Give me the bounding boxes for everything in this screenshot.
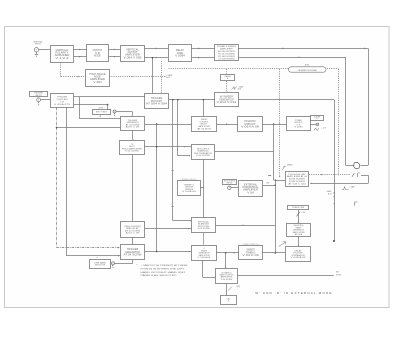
svg-text:AT 04 SCRW: AT 04 SCRW [124, 254, 143, 257]
svg-text:(GATE): (GATE) [287, 164, 293, 167]
svg-text:V 45 A 475: V 45 A 475 [54, 103, 71, 106]
svg-text:V 094 V 095: V 094 V 095 [124, 56, 143, 59]
svg-text:CALIBRATION SIGNAL: CALIBRATION SIGNAL [297, 69, 316, 72]
svg-text:CT 048 SCREW: CT 048 SCREW [218, 58, 235, 60]
svg-text:EXT TRIG: EXT TRIG [96, 112, 108, 114]
svg-text:AT 04 A 09: AT 04 A 09 [197, 127, 210, 130]
svg-text:V 04 C 09: V 04 C 09 [242, 254, 259, 257]
svg-text:V 1 V 2: V 1 V 2 [55, 57, 69, 60]
svg-text:A 04: A 04 [328, 192, 331, 195]
svg-text:TRACE SW: TRACE SW [292, 206, 304, 209]
svg-text:PANELS AS SELECTED: PANELS AS SELECTED [141, 274, 178, 277]
svg-text:A 04 C 09: A 04 C 09 [126, 232, 141, 235]
svg-text:(X10): (X10) [236, 286, 240, 288]
svg-text:V 014 A 04: V 014 A 04 [198, 256, 211, 259]
svg-text:V 04 SCRW: V 04 SCRW [125, 151, 139, 153]
svg-text:A 09 C 09: A 09 C 09 [126, 126, 141, 129]
svg-text:INPUT: INPUT [35, 95, 42, 97]
svg-text:V 014 A 09: V 014 A 09 [241, 126, 260, 129]
svg-text:AT 044 C 044: AT 044 C 044 [288, 183, 307, 186]
svg-text:*: * [137, 264, 138, 267]
svg-text:MODE: MODE [94, 55, 101, 58]
svg-text:EXT: EXT [336, 272, 339, 274]
svg-text:V 04 A 09: V 04 A 09 [182, 190, 197, 193]
svg-text:V 04 SCRW: V 04 SCRW [197, 228, 209, 230]
svg-text:A 04: A 04 [166, 76, 170, 79]
svg-text:(W): (W) [267, 183, 270, 185]
svg-text:V 364: V 364 [93, 81, 102, 84]
svg-text:AT 094 V 094: AT 094 V 094 [146, 103, 168, 106]
svg-text:+ SAWTOOTH PRESENT AT THESE: + SAWTOOTH PRESENT AT THESE [141, 264, 189, 267]
svg-text:V 0094: V 0094 [294, 127, 303, 129]
svg-text:-- TIMING SWITCH --: -- TIMING SWITCH -- [241, 244, 261, 246]
svg-text:A 094: A 094 [305, 64, 309, 67]
svg-text:HORIZ: HORIZ [336, 274, 341, 276]
svg-text:INPUT: INPUT [226, 183, 233, 185]
svg-text:HAND OR RIGHT HAND UNIT: HAND OR RIGHT HAND UNIT [141, 271, 187, 274]
svg-text:+ SW: + SW [301, 212, 305, 214]
svg-text:+ 12 V: + 12 V [321, 128, 327, 130]
svg-text:-- SWEEP LENGTH --: -- SWEEP LENGTH -- [180, 179, 197, 181]
svg-text:‘W’ AND ‘R’ IN EXTERNAL MODE: ‘W’ AND ‘R’ IN EXTERNAL MODE [253, 291, 332, 295]
svg-text:LEVEL: LEVEL [99, 108, 104, 110]
svg-text:V 048 A 09: V 048 A 09 [291, 256, 307, 259]
svg-text:A 04: A 04 [238, 88, 241, 91]
svg-text:V 0594: V 0594 [175, 55, 186, 58]
svg-text:V 04 SCRW: V 04 SCRW [196, 155, 210, 157]
svg-text:+ SAW: + SAW [349, 186, 355, 189]
svg-text:POINTS IN EITHER THE LEFT: POINTS IN EITHER THE LEFT [141, 268, 186, 270]
svg-text:V 04: V 04 [247, 191, 254, 194]
svg-text:V 014 V 014: V 014 V 014 [217, 101, 238, 104]
svg-text:V 04 SCRW: V 04 SCRW [221, 279, 233, 281]
svg-text:AT 048: AT 048 [295, 233, 302, 236]
svg-text:SELECTOR: SELECTOR [95, 265, 106, 267]
svg-text:INPUT: INPUT [35, 44, 42, 46]
